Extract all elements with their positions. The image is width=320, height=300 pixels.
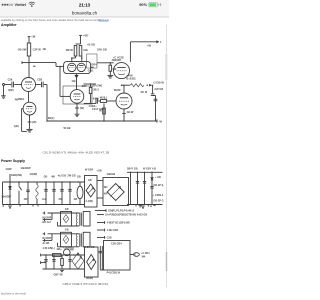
- svg-text:+2 GB+W: +2 GB+W: [153, 82, 165, 85]
- ground stubs: [139, 205, 156, 207]
- svg-text:W-BY GB: W-BY GB: [84, 246, 95, 249]
- ground for J1: [1, 96, 6, 99]
- capacitor C2: [42, 82, 44, 88]
- resistor zigzag R8: [130, 84, 144, 87]
- capacitor C22: [68, 260, 71, 262]
- label C2B4: [89, 104, 98, 108]
- svg-text:GB4/2W: GB4/2W: [21, 166, 31, 170]
- rectifier box h2: [61, 232, 72, 247]
- label +2 GB+W: [153, 82, 165, 85]
- capacitor C12: [52, 190, 55, 192]
- wire to V3 grid: [60, 95, 70, 97]
- rectifier tube V7: [77, 182, 83, 205]
- wire drop x62: [61, 182, 63, 205]
- label +B GB: [87, 43, 95, 47]
- svg-text:(W): (W): [80, 106, 84, 110]
- svg-text:21:13: 21:13: [79, 2, 91, 7]
- svg-text:CSL D-W2B0 VTL 4W(A)+ 4W+ 4LED: CSL D-W2B0 VTL 4W(A)+ 4W+ 4LED KES 4T, 2…: [43, 150, 110, 154]
- resistor R7: [109, 63, 112, 76]
- wire feedback rail: [47, 120, 157, 122]
- junction dots HT bus: [9, 181, 78, 182]
- label +C 2B4: [141, 252, 150, 255]
- svg-text:2xP GB: 2xP GB: [154, 88, 163, 91]
- label 2Bk1: [18, 97, 25, 101]
- label GB(L): [88, 68, 95, 72]
- capacitor C1: [12, 82, 14, 88]
- label +4/W: [126, 73, 133, 77]
- wifi icon: [29, 2, 35, 7]
- svg-text:(B4.2W): (B4.2W): [92, 83, 102, 87]
- wire h1 top: [48, 212, 80, 214]
- enclosure around V3: [63, 86, 92, 104]
- label +GB above bridge: [97, 170, 102, 173]
- svg-text:available by clicking on the l: available by clicking on the links below…: [1, 18, 104, 22]
- wire into V6 grid: [56, 65, 64, 67]
- tube V3: [70, 90, 84, 104]
- svg-text:+GB: +GB: [97, 170, 102, 173]
- svg-text:+W: +W: [31, 35, 36, 39]
- label GB4(2W): [11, 173, 22, 177]
- label 2B7: [82, 84, 87, 88]
- svg-text:W GBY 4.B: W GBY 4.B: [143, 168, 156, 171]
- ground lv: [54, 270, 64, 276]
- wire down to V3 input: [59, 66, 61, 96]
- amplifier schematic caption: [43, 150, 110, 154]
- label C2k: [8, 78, 13, 82]
- label W4: [142, 256, 146, 259]
- svg-text:GB: GB: [77, 175, 81, 178]
- stub 5: [97, 236, 105, 239]
- svg-text:W GB/P: W GB/P: [42, 237, 51, 240]
- wire drop f4: [151, 172, 153, 204]
- label GB h1: [65, 208, 69, 211]
- capacitor C10: [26, 190, 29, 192]
- svg-text:Viettel: Viettel: [15, 3, 26, 7]
- svg-text:(W): (W): [32, 120, 36, 124]
- wire V1 cathode to V2: [28, 92, 30, 103]
- B+ arrow terminal: [157, 40, 162, 44]
- stub 5 text: [107, 236, 112, 239]
- label 4x GB h2: [42, 242, 49, 245]
- svg-text:42/.W: 42/.W: [127, 110, 134, 114]
- tube V4: [116, 93, 132, 109]
- wire drop x10: [9, 174, 11, 205]
- label R1 left GB-2W: [18, 48, 27, 52]
- label GB: [72, 79, 76, 83]
- svg-text:GB4(2W): GB4(2W): [11, 173, 22, 177]
- svg-text:DR-W: DR-W: [66, 48, 74, 52]
- svg-text:-W: -W: [159, 119, 163, 123]
- input jack J1: [3, 84, 5, 96]
- wire plate bus: [122, 84, 131, 86]
- junction dots lv: [45, 254, 78, 255]
- transistor Q1: [64, 249, 71, 256]
- capacitor C13: [60, 190, 63, 192]
- capacitor C11: [44, 190, 47, 192]
- heading Amplifier: [1, 23, 17, 27]
- label GB+ lv: [57, 248, 63, 251]
- junction after zigzag: [147, 85, 148, 86]
- svg-text:DC W: DC W: [141, 91, 148, 94]
- svg-text:2B(L): 2B(L): [48, 116, 55, 120]
- diamond h1: [63, 215, 69, 223]
- svg-text:SAV GB: SAV GB: [97, 48, 107, 52]
- label C2B: [37, 77, 42, 81]
- capacitor C15: [136, 182, 139, 184]
- label DR-W: [43, 47, 74, 52]
- label 4W+: [24, 198, 28, 201]
- wire top right of V3 box: [84, 83, 97, 85]
- label 4-W GB(L): [43, 247, 55, 250]
- wire h2 top: [48, 233, 80, 235]
- svg-text:4B: 4B: [43, 47, 46, 51]
- bridge diamond: [107, 184, 124, 201]
- label 1(B): [14, 124, 19, 128]
- T2 diamond: [87, 255, 96, 270]
- wire V4 cathode to rail: [123, 109, 125, 121]
- wire V2 cathode down: [29, 115, 31, 129]
- capacitor C5: [151, 94, 155, 96]
- label GBx: [74, 198, 78, 201]
- supply tick +437: [79, 34, 89, 38]
- rectifier box h1: [61, 212, 72, 227]
- wire supply to resistors: [76, 35, 81, 44]
- label C2B(W2): [63, 247, 74, 252]
- svg-text:W4: W4: [142, 256, 146, 259]
- svg-text:W2(L): W2(L): [100, 95, 107, 99]
- label GB-2P(L: [153, 184, 164, 187]
- wire T1 to bridge top: [97, 180, 103, 182]
- wire h1 bottom: [58, 213, 80, 226]
- intro paragraph with link: [1, 18, 110, 22]
- resistor R5: [89, 84, 92, 103]
- svg-text:C2B-6 VC0E 9 ITP-KSCC 4B KS4: C2B-6 VC0E 9 ITP-KSCC 4B KS4: [63, 282, 109, 286]
- resistor R2b: [79, 46, 82, 57]
- svg-text:GB-2P G: GB-2P G: [153, 199, 163, 202]
- resistor R6: [98, 100, 116, 103]
- svg-text:Amplifier: Amplifier: [1, 23, 17, 27]
- svg-text:90%: 90%: [139, 3, 147, 7]
- wire HT left drop: [2, 182, 4, 205]
- tube V6 envelope: [64, 62, 91, 74]
- svg-text:4-4(W): 4-4(W): [85, 200, 93, 203]
- label P4(C2B)W: [107, 272, 121, 275]
- battery icon: [149, 3, 159, 7]
- svg-text:GB-2W: GB-2W: [18, 48, 27, 52]
- tube V2: [23, 102, 36, 115]
- wire drop f1: [130, 172, 132, 204]
- label GB/GB: [107, 172, 116, 176]
- label +C2B4.2: [153, 194, 164, 197]
- svg-text:4/4W: 4/4W: [5, 167, 12, 171]
- capacitor C6 ticks: [154, 99, 158, 101]
- svg-text:C2B: C2B: [37, 77, 42, 81]
- stub 3 text: [107, 221, 131, 224]
- svg-text:and here is the result: and here is the result: [1, 292, 26, 296]
- capacitor C20: [44, 260, 47, 262]
- wire drop f3: [144, 172, 146, 204]
- power supply schematic caption: [63, 282, 109, 286]
- capacitor C4: [96, 98, 98, 103]
- svg-text:C2F-W: C2F-W: [33, 48, 42, 52]
- wire filter bottom bus: [127, 204, 163, 206]
- label W2: [104, 186, 108, 189]
- label W GBY 4B: [143, 168, 156, 171]
- label 2xP GB: [141, 88, 164, 94]
- wire R2a to plate: [72, 56, 76, 62]
- tube V6 section B: [77, 63, 85, 71]
- wire plate node to coupling: [29, 62, 56, 64]
- ground below V3: [75, 114, 80, 116]
- signal strength dots: [2, 4, 13, 6]
- label 2B(L): [48, 116, 55, 120]
- wire J1 to C1: [5, 84, 12, 86]
- svg-text:+W: +W: [147, 44, 152, 48]
- capacitor C21: [52, 260, 55, 262]
- resistor R10: [53, 254, 62, 257]
- stub 1 text: [108, 209, 135, 212]
- junction dot rail mid: [103, 120, 104, 121]
- wire R1 to plate of V1: [28, 56, 30, 78]
- svg-text:4x GB: 4x GB: [42, 242, 49, 245]
- terminal h2 a: [43, 232, 45, 235]
- svg-text:DR4: DR4: [91, 62, 97, 66]
- junction on y84: [90, 83, 91, 84]
- terminal h2 b: [43, 234, 52, 242]
- tbox h1: [83, 212, 90, 227]
- scrollbar/page edge: [165, 25, 167, 287]
- resistor R9: [103, 103, 106, 121]
- svg-text:4W: 4W: [112, 67, 116, 71]
- resistor R2a: [74, 46, 77, 57]
- bridge diamond D3: [72, 253, 84, 269]
- svg-text:4x2: 4x2: [42, 198, 47, 201]
- stub 4 text: [107, 229, 119, 232]
- terminal box TB1: [87, 54, 98, 68]
- svg-text:2B-2: 2B-2: [93, 87, 99, 91]
- wire C2 to feedback rail: [44, 85, 47, 122]
- T1 diamond: [86, 184, 95, 197]
- node B+ tick with label +W: [28, 35, 36, 39]
- junction grid rail: [110, 62, 111, 63]
- label C2k-W: [83, 48, 88, 52]
- wire h2 bottom: [58, 233, 80, 246]
- wire drop x54: [53, 182, 55, 205]
- svg-text:4B2/W2: 4B2/W2: [112, 58, 122, 62]
- label 4B2/W2: [112, 58, 122, 62]
- label 2W+: [58, 198, 62, 201]
- svg-text:4-W GB(L): 4-W GB(L): [43, 247, 55, 250]
- wire stub left of plate node: [22, 61, 29, 64]
- svg-text:GB(P1,P2,P3,P4) 4B+2: GB(P1,P2,P3,P4) 4B+2: [108, 209, 135, 212]
- carrier name Viettel: [15, 3, 26, 7]
- capacitor C14: [68, 190, 71, 192]
- svg-text:GB: GB: [44, 175, 48, 178]
- label 4(W): [8, 88, 14, 92]
- svg-text:+B GB: +B GB: [87, 43, 95, 47]
- diode D1: [9, 186, 12, 189]
- label W2/W: [114, 85, 122, 93]
- label C2B GB4: [111, 243, 122, 246]
- cathode arrow of V6: [75, 74, 78, 78]
- svg-text:Power Supply: Power Supply: [1, 159, 25, 163]
- svg-text:4x2 GB: 4x2 GB: [58, 174, 67, 177]
- heading Power Supply: [1, 159, 25, 163]
- label 4/4(W) b: [29, 172, 37, 176]
- wire jog down to grid line: [55, 63, 57, 67]
- wire lv drop 70: [69, 255, 71, 269]
- svg-text:P4 (C2B) W: P4 (C2B) W: [107, 272, 121, 275]
- stub 4: [97, 229, 105, 232]
- wire drop f2: [137, 172, 139, 204]
- transformer T2 box: [85, 247, 99, 277]
- wire drop x70: [69, 182, 71, 205]
- label W GB: [64, 126, 71, 130]
- svg-text:C2B: C2B: [107, 236, 112, 239]
- cathode tick V3: [75, 106, 84, 110]
- switch S1: [19, 182, 22, 205]
- svg-text:W GB/P: W GB/P: [42, 216, 51, 219]
- diamond h2: [63, 235, 69, 243]
- ground below V2: [26, 129, 32, 132]
- wire B+ horizontal: [130, 41, 156, 43]
- resistor R1: [27, 43, 30, 56]
- label W GB/P h1: [42, 216, 51, 219]
- wire V6 right pin: [91, 62, 98, 67]
- svg-text:C2B GB4: C2B GB4: [111, 243, 122, 246]
- svg-text:4B(W): 4B(W): [86, 277, 93, 280]
- label W2(L): [100, 95, 107, 99]
- tube V1: [22, 78, 36, 92]
- junction dot rail V4: [123, 120, 124, 121]
- junction dot at plate bus: [123, 85, 124, 86]
- label W GB/P h2: [42, 237, 51, 240]
- terminal h1 a: [43, 212, 45, 215]
- clock 21:13: [79, 2, 91, 7]
- svg-text:GB: GB: [65, 208, 69, 211]
- wire grid rail to V5: [110, 62, 113, 64]
- svg-text:1(B): 1(B): [14, 124, 19, 128]
- tube V6 section A: [68, 63, 76, 71]
- svg-text:C2k: C2k: [8, 78, 13, 82]
- label +W: [147, 44, 152, 48]
- svg-text:bonavolta.ch: bonavolta.ch: [72, 11, 98, 16]
- labels HT mid: [44, 174, 81, 178]
- core h1: [80, 213, 82, 226]
- svg-text:4-W2 GB4: 4-W2 GB4: [107, 229, 119, 232]
- wire R2b to plate: [81, 56, 83, 62]
- label 2B4/2BF: [1, 195, 11, 198]
- label 4W: [112, 67, 116, 71]
- tick below node: [33, 65, 36, 67]
- core h2: [80, 233, 82, 246]
- diode D2: [151, 178, 154, 181]
- transformer T1 box: [85, 176, 98, 208]
- label 4/5W: [93, 96, 100, 100]
- label C2xF GB4: [92, 107, 105, 111]
- svg-text:+437: +437: [83, 34, 89, 38]
- stub 2 text: [105, 214, 147, 217]
- output plug P1: [134, 253, 140, 257]
- label 2B4Y GB: [127, 168, 138, 171]
- label B+2/BC: [126, 77, 135, 81]
- cathode tick: [28, 120, 37, 124]
- cathode tick V4: [122, 110, 134, 114]
- svg-text:W2/W: W2/W: [114, 89, 121, 92]
- svg-text:2B4/2BF: 2B4/2BF: [1, 195, 11, 198]
- svg-text:GBF 4B: GBF 4B: [54, 273, 63, 276]
- junction dots above V6: [71, 57, 82, 58]
- svg-text:W GB: W GB: [64, 126, 71, 130]
- tbox h2: [83, 232, 90, 247]
- wire lv bottom rail: [43, 268, 85, 270]
- label W GB4 above T1: [85, 169, 94, 172]
- label GB 4x2 h1: [42, 221, 51, 224]
- wire HT bottom bus: [3, 204, 85, 206]
- battery percent 90%: [139, 3, 147, 7]
- resistor R11: [61, 255, 64, 269]
- regulator box U1: [104, 241, 131, 271]
- charging bolt: [159, 3, 161, 7]
- ground filter: [136, 205, 152, 209]
- wire from B+ to R1: [28, 37, 30, 43]
- label 4Wb: [104, 193, 108, 196]
- svg-text:GB 4x2: GB 4x2: [42, 221, 51, 224]
- terminal h1 b: [43, 213, 52, 221]
- label W9: [99, 108, 102, 112]
- svg-text:W2: W2: [104, 186, 108, 189]
- label GB4/2W: [21, 166, 31, 170]
- svg-text:2Bk1: 2Bk1: [18, 97, 25, 101]
- wire filter top bus: [127, 171, 163, 173]
- stub 2: [97, 214, 104, 216]
- wire B+ vertical: [129, 42, 131, 62]
- wire V1 plate top: [28, 77, 30, 79]
- svg-text:4(W): 4(W): [8, 88, 14, 92]
- svg-text:4/4(W): 4/4(W): [29, 172, 37, 176]
- svg-text:GB: GB: [74, 198, 78, 201]
- wires T2 cable to reg: [100, 246, 102, 270]
- output arrow: [149, 84, 153, 86]
- svg-text:GB+: GB+: [57, 248, 63, 251]
- wire V3 output right: [84, 101, 96, 103]
- ground HT: [8, 206, 12, 209]
- wire drop x28: [27, 182, 29, 205]
- label 4-4(W): [85, 200, 93, 203]
- wire V1 anode to C2: [36, 84, 41, 86]
- capacitor C16: [143, 182, 146, 184]
- svg-text:GB/L: GB/L: [88, 68, 95, 72]
- svg-text:this page: this page: [99, 18, 110, 22]
- stub 1: [95, 209, 106, 212]
- label R1 right C2F-W: [33, 48, 42, 52]
- wire output down: [152, 85, 154, 93]
- svg-text:W GB4: W GB4: [85, 169, 94, 172]
- ground below R7: [107, 75, 113, 78]
- capacitor C23: [99, 251, 102, 252]
- junctions filter bus: [130, 172, 153, 173]
- label W-BY GB: [84, 246, 95, 249]
- node plate junction: [28, 62, 29, 63]
- coil h2: [76, 233, 77, 246]
- svg-text:4-W2/T B2 (2B4) W5: 4-W2/T B2 (2B4) W5: [107, 221, 131, 224]
- svg-text:GB: GB: [65, 229, 69, 232]
- svg-text:GB-2P (L: GB-2P (L: [153, 184, 164, 187]
- tick marks bottom: [3, 205, 39, 207]
- terminal lv in: [41, 254, 46, 264]
- wire C5 to rail: [153, 96, 156, 122]
- wire under reg: [100, 269, 103, 271]
